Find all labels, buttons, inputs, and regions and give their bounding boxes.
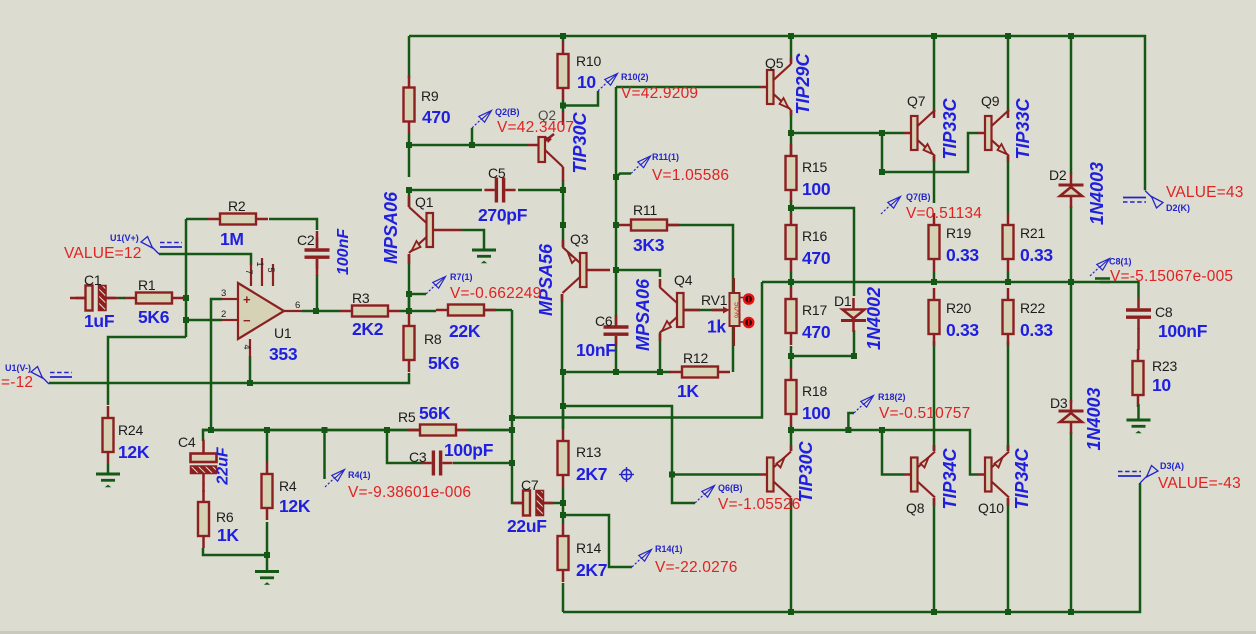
svg-text:R21: R21 [1020, 225, 1045, 241]
resistor R20 [933, 288, 936, 300]
svg-text:Q8: Q8 [906, 500, 925, 516]
transistor Q6 TIP30C [767, 458, 774, 492]
wire Q7 collector to rail [933, 36, 936, 112]
wire -12 rail pin4 node [249, 356, 252, 383]
wire V+ rail to pin7 [159, 254, 251, 265]
junction node (267,555) [264, 552, 270, 558]
svg-text:R24: R24 [118, 422, 143, 438]
junction node (409,311) [406, 308, 412, 314]
wire pin3 column down to y430 row [211, 299, 222, 430]
wire Q6 collector to bottom rail [790, 498, 793, 612]
power probe D3(A) VALUE=-43 [1140, 476, 1147, 483]
transistor Q3 MPSA56 [580, 253, 587, 287]
power probe U1(V+) VALUE=12 [152, 247, 159, 254]
svg-text:V=0.51134: V=0.51134 [906, 205, 982, 222]
junction node (1008,36) [1005, 33, 1011, 39]
svg-text:22uF: 22uF [507, 516, 547, 536]
capacitor C2 [305, 248, 330, 251]
svg-text:2: 2 [221, 309, 226, 320]
resistor R16 [790, 213, 793, 225]
wire R23 to ground [1137, 404, 1140, 420]
wire input R1 to node [182, 297, 186, 300]
resistor R2 [208, 218, 220, 221]
wire mid rail to x762 feedback column [512, 282, 762, 418]
junction node (791,208) [788, 205, 794, 211]
wire C5 left to Q1 collector [408, 190, 411, 207]
svg-text:5K6: 5K6 [428, 353, 460, 373]
diode D1 1N4002 [843, 310, 865, 319]
svg-text:Q9: Q9 [981, 93, 1000, 109]
wire C2 bottom to output node [316, 275, 319, 311]
voltage probe Q7(B) [881, 205, 891, 215]
junction node (1071,36) [1068, 33, 1074, 39]
resistor R12 [670, 371, 682, 374]
wire Q6 base [672, 473, 760, 476]
svg-text:Q3: Q3 [570, 231, 589, 247]
wire Q7 base branch down x882 [881, 133, 884, 172]
wire x512 column R7-right/R5/C3/C7 [512, 310, 523, 503]
wire opamp output pin6 [302, 310, 316, 313]
voltage probe R11(1) [631, 164, 641, 174]
wire R3-R7 node run [316, 310, 340, 313]
svg-text:353: 353 [269, 344, 298, 364]
svg-text:C6: C6 [595, 313, 613, 329]
wire Q6 emitter [790, 430, 793, 451]
svg-text:R10(2): R10(2) [621, 72, 649, 82]
resistor R18 [790, 368, 793, 380]
wire R7 right lead run [484, 309, 512, 312]
svg-text:TIP29C: TIP29C [793, 52, 813, 114]
wire y372 row Q3 coll to Q4 emitter/R12 [562, 371, 671, 374]
wire Q5 emitter to y133 node [790, 110, 793, 144]
svg-text:R20: R20 [946, 300, 971, 316]
svg-text:1K: 1K [217, 525, 239, 545]
wire R22 bottom to Q10 emitter [1007, 341, 1010, 451]
svg-text:C8(1): C8(1) [1109, 257, 1132, 267]
wire y430 left bias row [202, 429, 512, 432]
wire R12 right + RV1 bottom [732, 326, 735, 372]
junction node (563,225) [560, 222, 566, 228]
svg-text:C3: C3 [409, 449, 427, 465]
junction node (1008,282) [1005, 279, 1011, 285]
svg-text:0.33: 0.33 [946, 245, 979, 265]
wire R10 bottom node to Q2 collector column [562, 100, 565, 112]
wire Q10 collector to bottom rail [1007, 498, 1010, 612]
svg-text:3: 3 [221, 288, 226, 299]
svg-text:5: 5 [266, 267, 276, 272]
svg-text:V=-0.662249: V=-0.662249 [450, 285, 541, 302]
capacitor C4 [191, 454, 217, 463]
wire probe stub R7(1) [409, 294, 426, 311]
wire Q8 collector to bottom rail [933, 498, 936, 612]
svg-text:470: 470 [802, 248, 831, 268]
svg-text:TIP30C: TIP30C [796, 440, 816, 502]
wire Q4 emitter down [659, 334, 662, 372]
junction node (1071,612) [1068, 609, 1074, 615]
svg-text:−: − [243, 313, 251, 328]
wire node R10 to probe R10(2) elbow [563, 91, 598, 106]
wire y430 output drive row [791, 430, 978, 475]
ground below R6/R4 [255, 570, 279, 573]
svg-text:100pF: 100pF [444, 440, 494, 460]
wire y172 row to Q9 base [882, 133, 978, 172]
wire +43V top rail [409, 36, 1145, 190]
svg-text:Q10: Q10 [978, 500, 1004, 516]
junction node (563,372) [560, 369, 566, 375]
svg-text:1N4003: 1N4003 [1087, 162, 1107, 225]
svg-text:R9: R9 [421, 88, 439, 104]
transistor Q8 TIP34C [911, 458, 918, 492]
wire R4 column [266, 430, 269, 462]
wire probe stub Q2(B) [471, 128, 474, 145]
svg-text:R4: R4 [279, 478, 297, 494]
transistor Q4 MPSA06 [677, 293, 684, 327]
wire Q2 base net from R9 bottom [408, 133, 411, 177]
junction node (791,282) [788, 279, 794, 285]
capacitor C7 [523, 491, 530, 516]
junction node (563,503) [560, 500, 566, 506]
wire R19 bottom to rail [933, 271, 936, 282]
voltage probe R10(2) [598, 82, 608, 92]
wire Q10 emitter [1007, 445, 1010, 451]
svg-text:0.33: 0.33 [1020, 320, 1053, 340]
wire D2 column [1070, 36, 1073, 174]
junction node (324.5,430) [322, 427, 328, 433]
svg-text:100: 100 [802, 179, 831, 199]
wire C7 right to x563 column [543, 502, 563, 505]
junction node (186,320) [183, 317, 189, 323]
power probe U1(V-) VALUE=-12 [42, 377, 49, 384]
junction node (409,145) [406, 142, 412, 148]
svg-text:R10: R10 [576, 53, 601, 69]
svg-text:1K: 1K [677, 381, 699, 401]
svg-text:D2: D2 [1049, 167, 1067, 183]
wire mid output rail y282 [762, 281, 1110, 284]
wire Q8 emitter [933, 445, 936, 451]
svg-text:12K: 12K [118, 442, 150, 462]
resistor R21 [1007, 213, 1010, 225]
svg-text:V=-1.05526: V=-1.05526 [718, 496, 801, 513]
resistor R11 [619, 224, 631, 227]
wire C5 line [409, 189, 482, 192]
svg-text:1: 1 [255, 261, 265, 266]
svg-text:470: 470 [802, 322, 831, 342]
junction node (791,36) [788, 33, 794, 39]
svg-text:V=-9.38601e-006: V=-9.38601e-006 [348, 484, 471, 501]
wire y87 to Q5 base [616, 86, 760, 89]
svg-text:R18: R18 [802, 383, 827, 399]
svg-text:1k: 1k [707, 317, 726, 337]
resistor R19 [933, 213, 936, 225]
wire Q1 base to ground [462, 230, 484, 249]
resistor R17 [790, 287, 793, 299]
svg-text:R16: R16 [802, 228, 827, 244]
svg-text:R14: R14 [576, 540, 601, 556]
svg-text:C2: C2 [297, 232, 315, 248]
junction node (934,36) [931, 33, 937, 39]
voltage probe Q2(B) [472, 119, 482, 129]
voltage probe C8(1) [1090, 267, 1100, 277]
svg-text:12K: 12K [279, 496, 311, 516]
svg-text:TIP33C: TIP33C [1013, 97, 1033, 159]
svg-text:Q2(B): Q2(B) [495, 107, 520, 117]
wire R8 bottom to -12 rail [49, 373, 409, 383]
svg-text:Q7: Q7 [907, 93, 926, 109]
svg-text:MPSA06: MPSA06 [633, 278, 653, 351]
svg-text:1N4003: 1N4003 [1084, 387, 1104, 450]
svg-text:VALUE=-43: VALUE=-43 [1158, 475, 1241, 492]
wire Q5 collector to rail [790, 36, 793, 62]
svg-text:10: 10 [577, 72, 596, 92]
svg-text:Q1: Q1 [415, 194, 434, 210]
junction node (563,105.5) [560, 103, 566, 109]
svg-text:VALUE=12: VALUE=12 [64, 245, 142, 262]
wire x791 driver column [790, 144, 793, 156]
junction node (791,356) [788, 353, 794, 359]
wire probe tap mark C8(1) [1095, 277, 1110, 280]
junction node (563,190) [560, 187, 566, 193]
wire C3 right to x512 [453, 462, 512, 465]
svg-text:Q7(B): Q7(B) [906, 192, 931, 202]
diode D2 1N4003 [1059, 184, 1084, 187]
junction node (409,190) [406, 187, 412, 193]
junction node (563,406) [560, 403, 566, 409]
svg-text:1N4002: 1N4002 [864, 287, 884, 350]
wire R6 bottom row to ground node [203, 548, 267, 572]
voltage probe R14(1) [632, 558, 642, 568]
svg-text:D1: D1 [834, 293, 852, 309]
wire Q4 base to RV1 wiper [684, 309, 726, 312]
junction node (563,515) [560, 512, 566, 518]
junction node (934,612) [931, 609, 937, 615]
svg-text:R8: R8 [424, 331, 442, 347]
origin marker [619, 467, 634, 482]
svg-text:100: 100 [802, 403, 831, 423]
wire y133 Q7 base row [791, 132, 904, 135]
resistor R13 [562, 429, 565, 441]
junction node (882,133) [879, 130, 885, 136]
resistor R7 [436, 309, 448, 312]
wire pin2 node to R24 branch [108, 337, 186, 405]
svg-text:D3: D3 [1050, 395, 1068, 411]
svg-text:2K2: 2K2 [352, 319, 384, 339]
svg-text:R3: R3 [352, 290, 370, 306]
svg-text:D3(A): D3(A) [1160, 461, 1184, 471]
capacitor C1 [86, 286, 93, 311]
svg-text:R15: R15 [802, 159, 827, 175]
resistor R5 [408, 429, 420, 432]
junction node (1008,612) [1005, 609, 1011, 615]
wire V probe column x616 from corner to R11/Q3 base/C6 [615, 87, 618, 326]
junction node (250,383) [247, 380, 253, 386]
svg-text:0.33: 0.33 [946, 320, 979, 340]
svg-text:U1(V+): U1(V+) [110, 233, 139, 243]
svg-text:TIP34C: TIP34C [1012, 447, 1032, 509]
junction node (616,225) [613, 222, 619, 228]
svg-text:V=-0.510757: V=-0.510757 [879, 405, 970, 422]
transistor Q7 TIP33C [911, 116, 918, 150]
svg-text:2K7: 2K7 [576, 560, 607, 580]
wire probe stub R4(1) [323, 430, 326, 479]
resistor R23 [1137, 349, 1140, 361]
junction node (791,612) [788, 609, 794, 615]
svg-text:R11(1): R11(1) [652, 152, 679, 162]
svg-text:MPSA56: MPSA56 [536, 243, 556, 316]
junction node (791,430) [788, 427, 794, 433]
input terminal stub [70, 297, 86, 300]
junction node (848.4,430) [845, 427, 851, 433]
wire y406 to Q6 base branch [563, 406, 695, 503]
resistor R15 [790, 144, 793, 156]
transistor Q5 TIP29C [767, 70, 774, 104]
power probe D2(K) VALUE=43 [1145, 191, 1152, 198]
svg-text:VALUE=43: VALUE=43 [1166, 184, 1244, 201]
junction node (854,356) [851, 353, 857, 359]
transistor Q1 MPSA06 [427, 213, 434, 247]
junction node (791,133) [788, 130, 794, 136]
svg-text:C5: C5 [488, 165, 506, 181]
svg-text:R17: R17 [802, 302, 827, 318]
junction node (316,311) [313, 308, 319, 314]
resistor R6 [202, 490, 205, 502]
svg-text:0.33: 0.33 [1020, 245, 1053, 265]
resistor R10 [562, 42, 565, 54]
svg-text:100nF: 100nF [335, 228, 352, 275]
svg-text:R14(1): R14(1) [655, 544, 683, 554]
svg-text:MPSA06: MPSA06 [381, 191, 401, 264]
resistor R22 [1007, 288, 1010, 300]
wire R10 top [562, 36, 565, 42]
junction node (660,372) [657, 369, 663, 375]
svg-text:R22: R22 [1020, 300, 1045, 316]
wire Q8 base branch [882, 430, 904, 475]
junction node (267,430) [264, 427, 270, 433]
junction node (472,145) [469, 142, 475, 148]
op-amp U1 353 [250, 264, 252, 286]
svg-text:+: + [243, 292, 251, 307]
svg-text:TIP33C: TIP33C [940, 97, 960, 159]
svg-text:TIP34C: TIP34C [940, 447, 960, 509]
junction node (387,430) [384, 427, 390, 433]
junction node (616,177) [613, 174, 619, 180]
svg-text:1M: 1M [220, 229, 244, 249]
voltage probe R4(1) [325, 478, 335, 488]
wire R9 column top [408, 36, 411, 78]
svg-text:C7: C7 [521, 477, 539, 493]
svg-text:6: 6 [295, 300, 300, 311]
capacitor C5 [495, 178, 498, 203]
diode D3 1N4003 [1059, 410, 1084, 413]
potentiometer RV1 1k [733, 278, 736, 293]
svg-text:Q5: Q5 [765, 55, 784, 71]
svg-text:C4: C4 [178, 434, 196, 450]
wire D1 branch top [791, 208, 854, 296]
wire Q3 collector down to y372 and R13 top net [561, 294, 564, 372]
svg-text:R4(1): R4(1) [348, 470, 371, 480]
window edge strip [0, 631, 1256, 634]
wire Q1 emitter to R3/R7/R8 node [408, 254, 411, 313]
svg-text:V=42.9209: V=42.9209 [621, 85, 698, 102]
voltage probe R18(2) [854, 404, 864, 414]
wire R2 feedback left [186, 218, 208, 221]
wire probe stub R11(1) [616, 174, 631, 178]
transistor Q2 TIP30C [539, 137, 546, 162]
ground below R24 [96, 473, 120, 476]
capacitor C3 [432, 451, 435, 476]
wire R5 right to x512 [468, 429, 512, 432]
junction node (512,430) [509, 427, 515, 433]
wire Q9 collector to rail [1007, 36, 1010, 112]
wire y270 Q3 base to Q4 collector [616, 270, 660, 277]
resistor R24 [107, 406, 110, 418]
junction node (186,298) [183, 295, 189, 301]
svg-text:U1(V-): U1(V-) [5, 363, 31, 373]
svg-text:R23: R23 [1152, 358, 1177, 374]
resistor R4 [266, 462, 269, 474]
resistor R3 [340, 310, 352, 313]
junction node (512,463) [509, 460, 515, 466]
svg-text:Q6(B): Q6(B) [718, 483, 743, 493]
svg-text:R13: R13 [576, 444, 601, 460]
voltage probe Q6(B) [695, 494, 705, 504]
junction node (512,418) [509, 415, 515, 421]
svg-text:100nF: 100nF [1158, 321, 1208, 341]
wire x563 R13/R14 column [562, 406, 565, 429]
svg-text:10nF: 10nF [576, 340, 616, 360]
svg-text:C8: C8 [1155, 304, 1173, 320]
wire probe stub R14(1) [563, 515, 632, 567]
transistor Q10 TIP34C [985, 458, 992, 492]
svg-text:R11: R11 [633, 202, 657, 218]
junction node (1071,282) [1068, 279, 1074, 285]
wire R24 bottom to ground [107, 464, 110, 473]
resistor R1 [124, 297, 136, 300]
svg-text:470: 470 [422, 107, 451, 127]
transistor Q9 TIP33C [985, 116, 992, 150]
resistor R8 [408, 314, 411, 326]
svg-text:22uF: 22uF [215, 446, 232, 486]
junction node (934,282) [931, 279, 937, 285]
resistor R9 [408, 76, 411, 88]
svg-text:R1: R1 [138, 277, 156, 293]
junction node (616,372) [613, 369, 619, 375]
wire D3 column [1070, 282, 1073, 403]
svg-text:R18(2): R18(2) [878, 392, 906, 402]
svg-text:3K3: 3K3 [633, 235, 665, 255]
svg-text:56K: 56K [419, 403, 451, 423]
wire Q9 emitter to R21 [1007, 156, 1010, 213]
ground near Q1 base [472, 249, 496, 252]
junction node (563,36) [560, 33, 566, 39]
svg-text:V=-22.0276: V=-22.0276 [655, 559, 738, 576]
svg-text:C1: C1 [84, 272, 102, 288]
wire probe stub R18(2) [848, 413, 854, 430]
ground below R23 [1127, 419, 1151, 422]
wire Q2 collector to C5-right node, down to R11 node and Q3 emitter [562, 180, 565, 247]
wire pin2 row [186, 319, 222, 322]
svg-text:R5: R5 [398, 409, 416, 425]
svg-text:RV1: RV1 [701, 292, 728, 308]
capacitor C8 [1126, 308, 1151, 311]
svg-text:5K6: 5K6 [138, 307, 170, 327]
wire D1 branch bottom [791, 330, 854, 356]
wire R20 bottom to Q8 emitter [933, 341, 936, 451]
svg-text:Q4: Q4 [674, 272, 693, 288]
svg-text:=-12: =-12 [1, 374, 33, 391]
wire R21 bottom to rail [1007, 271, 1010, 282]
svg-text:V=42.3407: V=42.3407 [497, 119, 574, 136]
svg-text:V=-5.15067e-005: V=-5.15067e-005 [1110, 268, 1233, 285]
